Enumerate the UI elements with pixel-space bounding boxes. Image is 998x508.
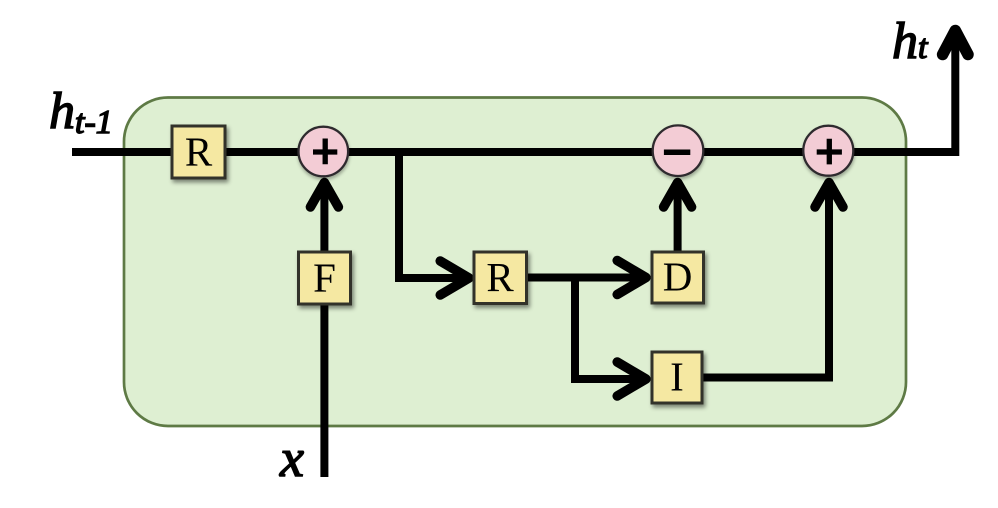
arrowhead into minus circle bbox=[664, 183, 692, 208]
arrowhead into D bbox=[617, 261, 646, 295]
gate R1 (yellow square on main line) bbox=[172, 126, 225, 178]
wire: R to D bbox=[527, 274, 640, 282]
svg-text:F: F bbox=[313, 255, 336, 301]
svg-text:ht-1: ht-1 bbox=[49, 83, 113, 141]
svg-text:ht: ht bbox=[892, 13, 929, 70]
cell body (green rounded rectangle) bbox=[124, 98, 906, 427]
node: minus circle bbox=[653, 125, 704, 176]
gate F (yellow square) bbox=[299, 252, 351, 304]
svg-text:D: D bbox=[663, 254, 693, 300]
gate D (yellow square) bbox=[652, 252, 704, 303]
svg-text:R: R bbox=[185, 129, 213, 175]
gate I (yellow square) bbox=[652, 352, 702, 403]
wire: main horizontal line h_{t-1} to output elbow bbox=[72, 32, 955, 152]
wire: branch down to I bbox=[575, 278, 640, 380]
wire: output arrowhead h_t bbox=[943, 31, 968, 55]
gate R2 (yellow square) bbox=[474, 252, 527, 304]
arrowhead into R bbox=[440, 261, 469, 295]
node: plus circle 2 bbox=[803, 126, 853, 176]
wire: x input up through F to plus circle bbox=[320, 184, 328, 477]
node: plus circle 1 bbox=[299, 127, 349, 177]
svg-text:x: x bbox=[279, 428, 304, 488]
arrowhead into plus circle bbox=[310, 183, 338, 208]
svg-text:I: I bbox=[670, 354, 684, 400]
svg-text:R: R bbox=[486, 254, 514, 300]
wire: I right and up to second plus circle bbox=[702, 184, 829, 378]
wire: D up to minus circle bbox=[674, 184, 682, 252]
arrowhead into I bbox=[617, 362, 646, 396]
wire: branch down from main line to R bbox=[399, 152, 462, 278]
arrowhead into second plus circle bbox=[815, 183, 843, 208]
